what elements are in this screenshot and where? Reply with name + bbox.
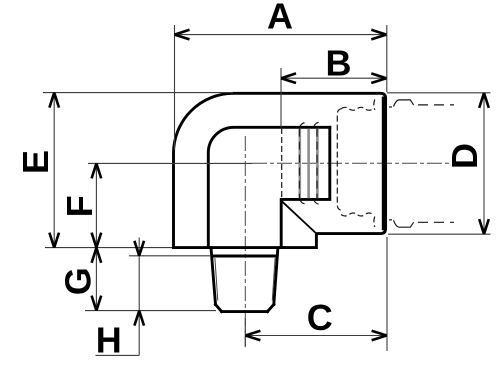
thread runout near face bottom [374,217,375,228]
arrow F top [92,163,102,178]
arrow B right [371,73,386,83]
arrow D top [479,93,489,108]
dimension line G [95,248,97,311]
port thread runout wiggles bottom [300,200,321,204]
arrow A right [371,30,386,40]
arrow A left [175,30,190,40]
arrow C left [245,331,260,341]
male thread bottom face [222,310,268,313]
arrow C right [372,331,387,341]
internal port right wall, bottom, bore right wall [281,127,330,247]
arrow F bottom [92,233,102,248]
hidden female thread crest top wavy line [341,107,373,110]
arrow B left [281,73,296,83]
svg-text:D: D [444,143,485,169]
svg-text:E: E [15,150,56,174]
arrow H lower (outside, pointing up) [134,311,144,326]
dimension line A [175,34,387,36]
extension line C left (over centerline) [244,318,246,347]
male thread root lines [215,258,275,301]
male thread bottom chamfers [216,304,274,311]
svg-text:B: B [326,42,352,83]
arrow H upper (outside, pointing down) [134,241,144,256]
internal port thread gray bands [300,129,318,199]
hidden thread line left of port [281,128,283,199]
extension line B left [280,68,282,127]
dimension line C [245,335,386,337]
dimension line H shaft [138,238,140,356]
arrow D bottom [479,219,489,234]
hidden thread beyond face top [389,106,392,108]
svg-text:F: F [59,195,100,217]
extension line G bottom [85,310,216,312]
extension line F top [88,162,252,164]
H leader horizontal [96,354,140,356]
internal port thread dark dashed lines [299,129,317,199]
svg-text:G: G [58,267,99,295]
hidden female thread profile of right port [337,109,341,210]
extension line E/F/G bottom [45,247,172,249]
svg-text:H: H [96,320,122,361]
extension line E top [43,92,233,94]
body outer outline: left edge, outer elbow arc, top edge, rounded right face [174,93,386,247]
arrow E top [49,93,59,108]
right end face extra thickness [382,97,385,231]
male thread crest line [212,255,277,258]
dimension line E [53,93,55,248]
extension line H top [129,255,211,257]
port thread runout wiggles top [300,123,321,127]
extension line A/B right [386,25,388,92]
horizontal centerline of right female port [252,162,470,164]
dimension line D [483,93,485,234]
hidden thread beyond face bottom [389,219,392,221]
extension line C right [386,237,388,351]
extension line D top [387,92,491,94]
extension line A left [174,25,176,150]
inner elbow arc and bore wall [208,127,329,247]
extension line D bottom [388,233,491,235]
bottom face of body (continuous across thread) [174,246,285,249]
svg-text:C: C [307,297,333,338]
dimension line F [95,163,97,247]
male thread tapered sides [211,248,278,305]
arrow G bottom [92,296,102,311]
thread runout near face top [374,100,375,111]
dimension line B [281,77,386,79]
internal chamfer cone edge [282,201,316,233]
vertical centerline of bottom male thread [244,136,246,347]
arrow E bottom [49,233,59,248]
hidden female thread crest bottom wavy line [341,213,373,216]
arrow G top [92,248,102,263]
svg-text:A: A [267,0,293,37]
